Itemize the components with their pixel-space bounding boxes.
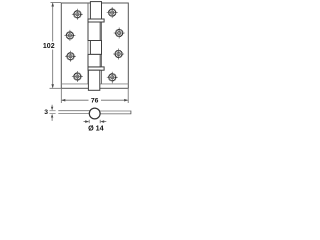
- side view left leaf: [58, 111, 89, 114]
- knuckle segment 5 (bottom barrel): [88, 70, 99, 90]
- svg-text:3: 3: [44, 109, 48, 116]
- screw hole R4: [107, 72, 118, 84]
- screw hole L4: [72, 71, 83, 82]
- dimension 102 line: [50, 3, 62, 89]
- screw hole L2: [64, 30, 75, 41]
- svg-text:Ø 14: Ø 14: [88, 124, 104, 133]
- dimension diameter 14: [84, 120, 107, 123]
- knuckle bearing ring 2: [88, 67, 104, 70]
- plate interior fold line: [61, 83, 128, 85]
- screw hole R1: [107, 7, 118, 18]
- screw hole R2: [114, 28, 125, 39]
- svg-text:102: 102: [43, 43, 55, 50]
- knuckle segment 1: [90, 2, 101, 19]
- screw hole L1: [72, 9, 83, 20]
- knuckle segment 3: [90, 41, 101, 55]
- svg-text:76: 76: [91, 98, 99, 105]
- screw hole L3: [65, 51, 76, 62]
- knuckle segment 2: [88, 22, 100, 41]
- side view right leaf: [100, 111, 131, 115]
- screw hole R3: [113, 49, 124, 60]
- side view dim-3 extension ticks: [49, 111, 55, 114]
- hinge plate outline (front view): [61, 3, 128, 88]
- dimension 3 arrows: [51, 105, 53, 121]
- dimension 76 line: [61, 89, 128, 103]
- knuckle bearing ring 1: [88, 19, 104, 22]
- right leaf edge line: [101, 3, 103, 84]
- side view barrel circle: [89, 108, 100, 119]
- left leaf edge line: [87, 3, 89, 84]
- knuckle segment 4: [88, 54, 100, 67]
